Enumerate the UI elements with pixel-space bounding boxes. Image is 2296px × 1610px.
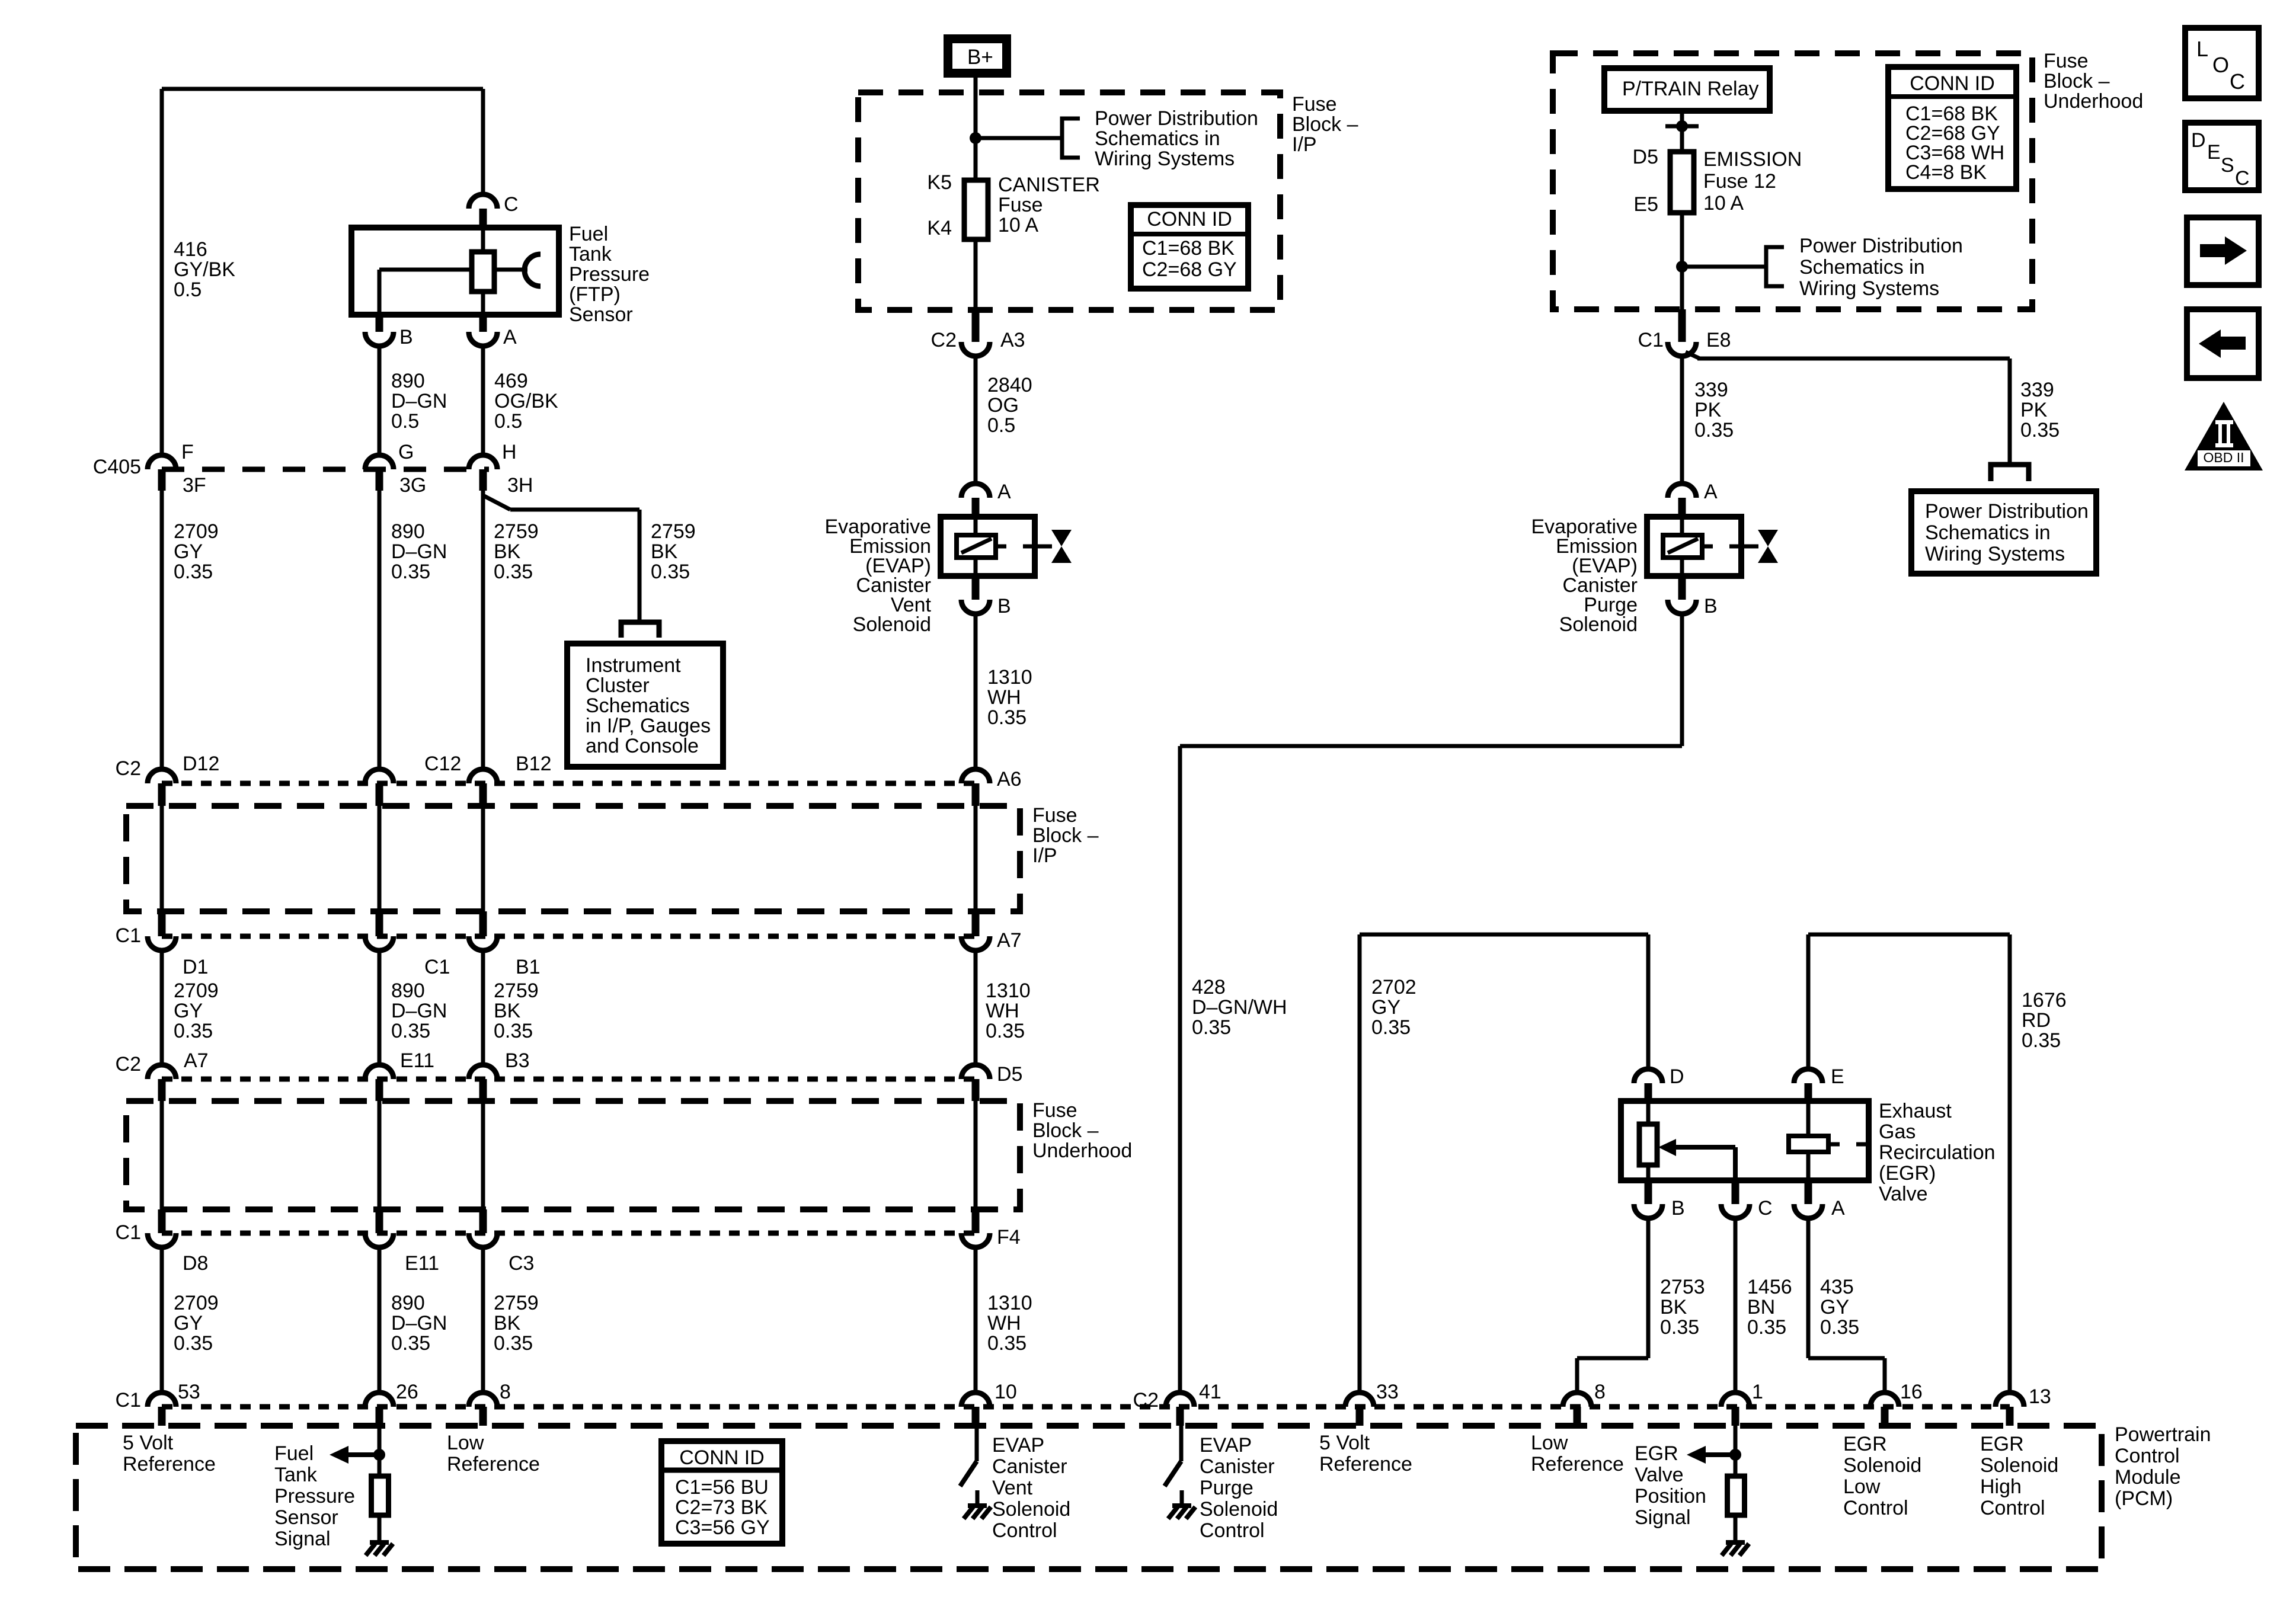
junction node <box>1676 261 1688 273</box>
svg-text:Low: Low <box>447 1432 484 1454</box>
ground (EGR position) <box>1726 1540 1745 1545</box>
wire 2753 BK 0.35 (EGR B to pin 8) <box>1646 1218 1651 1358</box>
connector D1 <box>158 911 166 936</box>
P/TRAIN relay box <box>1604 68 1770 111</box>
svg-text:0.35: 0.35 <box>391 1020 430 1042</box>
svg-text:CONN ID: CONN ID <box>1910 72 1995 95</box>
svg-text:16: 16 <box>1900 1381 1923 1403</box>
bus staple to instrument cluster <box>621 622 659 638</box>
svg-text:A7: A7 <box>997 929 1022 952</box>
svg-text:Reference: Reference <box>447 1453 540 1475</box>
svg-text:Power Distribution: Power Distribution <box>1095 107 1258 130</box>
svg-text:Module: Module <box>2115 1466 2181 1489</box>
svg-text:0.35: 0.35 <box>1660 1316 1699 1339</box>
svg-text:CONN ID: CONN ID <box>679 1446 765 1469</box>
connector D8 <box>158 1209 166 1233</box>
svg-text:0.35: 0.35 <box>174 561 213 583</box>
svg-text:0.35: 0.35 <box>494 1020 533 1042</box>
svg-text:I/P: I/P <box>1292 133 1317 156</box>
wire 890 D-GN 0.35 (G to C12) <box>378 491 382 769</box>
svg-text:Solenoid: Solenoid <box>992 1498 1070 1521</box>
svg-text:A7: A7 <box>184 1049 209 1072</box>
internal resistor <box>1728 1476 1745 1515</box>
svg-text:C1: C1 <box>116 1389 141 1411</box>
wire 1456 BN 0.35 (EGR C to pin 1) <box>1734 1218 1738 1393</box>
svg-text:41: 41 <box>1199 1381 1221 1403</box>
connector row C1 (D8 E11 C3 F4) <box>162 1231 976 1236</box>
wire 435 GY 0.35 (EGR A to pin 16) <box>1806 1218 1811 1358</box>
svg-text:D–GN/WH: D–GN/WH <box>1192 996 1287 1019</box>
svg-text:C405: C405 <box>93 456 141 478</box>
wire 2840 OG 0.5 <box>974 356 978 484</box>
svg-text:PK: PK <box>1694 399 1722 421</box>
fuse block underhood box (top) <box>1553 53 2032 309</box>
connector H <box>469 455 497 469</box>
svg-text:BK: BK <box>494 1312 521 1334</box>
connector A6 <box>961 769 990 783</box>
svg-text:GY: GY <box>174 1000 203 1022</box>
PCM connector row <box>162 1404 2010 1410</box>
wire 2709 GY 0.35 (D8 to 53) <box>160 1247 164 1393</box>
PCM pin 16 <box>1870 1393 1899 1407</box>
svg-text:0.35: 0.35 <box>986 1020 1025 1042</box>
svg-text:Block –: Block – <box>2044 70 2110 92</box>
svg-text:Sensor: Sensor <box>569 303 633 326</box>
relay output junction <box>1680 111 1684 152</box>
svg-text:EVAP: EVAP <box>1200 1434 1252 1457</box>
junction node <box>970 132 981 144</box>
svg-text:2709: 2709 <box>174 1292 219 1314</box>
svg-text:S: S <box>2221 154 2234 177</box>
svg-text:Wiring Systems: Wiring Systems <box>1925 543 2065 565</box>
svg-text:0.35: 0.35 <box>391 561 430 583</box>
svg-text:E11: E11 <box>405 1252 439 1275</box>
svg-text:Underhood: Underhood <box>1032 1140 1132 1162</box>
svg-text:O: O <box>2212 53 2229 77</box>
svg-text:C12: C12 <box>424 753 461 775</box>
svg-text:EGR: EGR <box>1635 1442 1678 1465</box>
svg-text:Power Distribution: Power Distribution <box>1799 235 1963 257</box>
exhaust gas recirculation EGR valve box <box>1621 1101 1869 1180</box>
wire fuse to connector A3 <box>974 239 978 310</box>
fuel tank pressure sensor box <box>351 228 559 315</box>
connector A7 (vent wire) <box>972 911 980 936</box>
svg-text:I/P: I/P <box>1032 844 1057 867</box>
connector E11 (lower) <box>376 1209 383 1233</box>
wire 1310 WH 0.35 (A7 to D5) <box>974 950 978 1065</box>
svg-text:in I/P, Gauges: in I/P, Gauges <box>586 715 711 737</box>
svg-text:G: G <box>398 441 414 463</box>
svg-text:C1: C1 <box>424 956 450 978</box>
svg-text:416: 416 <box>174 238 207 261</box>
svg-text:C: C <box>2235 167 2250 190</box>
svg-text:(FTP): (FTP) <box>569 283 621 306</box>
svg-text:Exhaust: Exhaust <box>1879 1100 1952 1122</box>
svg-text:10: 10 <box>994 1381 1017 1403</box>
svg-text:Fuse: Fuse <box>1292 93 1337 116</box>
svg-text:5 Volt: 5 Volt <box>1319 1432 1370 1454</box>
svg-text:0.35: 0.35 <box>391 1332 430 1355</box>
svg-text:B: B <box>399 326 413 348</box>
svg-text:Reference: Reference <box>1319 1453 1412 1475</box>
svg-text:3F: 3F <box>183 474 206 497</box>
svg-text:D–GN: D–GN <box>391 390 447 412</box>
connector F <box>148 455 176 469</box>
svg-text:339: 339 <box>1694 379 1728 401</box>
svg-text:2759: 2759 <box>494 1292 539 1314</box>
svg-text:Sensor: Sensor <box>274 1506 338 1529</box>
svg-text:D5: D5 <box>1633 146 1658 168</box>
back arrow icon <box>2187 309 2259 378</box>
svg-text:A: A <box>503 326 517 348</box>
svg-text:Control: Control <box>992 1519 1057 1542</box>
connector C1 <box>376 911 383 936</box>
svg-text:Fuel: Fuel <box>569 223 608 245</box>
connector B (vent solenoid) <box>972 576 980 600</box>
wire 2759 BK 0.35 (B1 to B3) <box>481 950 485 1065</box>
connector A (purge solenoid) <box>1668 484 1696 498</box>
svg-text:D: D <box>2191 129 2206 152</box>
svg-text:8: 8 <box>1594 1381 1606 1403</box>
svg-text:1: 1 <box>1752 1381 1763 1403</box>
svg-text:B1: B1 <box>516 956 541 978</box>
svg-text:0.35: 0.35 <box>1820 1316 1859 1339</box>
svg-text:C4=8 BK: C4=8 BK <box>1905 161 1987 184</box>
svg-text:2709: 2709 <box>174 980 219 1002</box>
svg-text:C1=68 BK: C1=68 BK <box>1142 237 1235 260</box>
EGR potentiometer <box>1646 1101 1651 1124</box>
svg-text:GY: GY <box>174 1312 203 1334</box>
connector D5 (vent wire) <box>961 1065 990 1079</box>
wire 339 PK 0.35 (E8 branch right) <box>1686 352 1700 359</box>
svg-text:P/TRAIN Relay: P/TRAIN Relay <box>1622 78 1759 100</box>
svg-text:WH: WH <box>987 1312 1021 1334</box>
connector row C2 (A7 E11 B3 D5) <box>162 1077 976 1082</box>
svg-text:D–GN: D–GN <box>391 1312 447 1334</box>
svg-text:Reference: Reference <box>123 1453 216 1475</box>
connector C (FTP sensor) <box>469 194 497 209</box>
svg-text:BK: BK <box>651 540 678 563</box>
svg-text:D–GN: D–GN <box>391 540 447 563</box>
svg-text:EGR: EGR <box>1843 1433 1887 1455</box>
off-page bracket to power distribution <box>1062 119 1080 158</box>
svg-text:Pressure: Pressure <box>569 263 650 286</box>
svg-text:Control: Control <box>2115 1445 2180 1467</box>
B+ battery feed symbol <box>948 39 1007 73</box>
svg-text:0.35: 0.35 <box>174 1332 213 1355</box>
PCM pin 1 <box>1721 1393 1750 1407</box>
connector D12 <box>148 769 176 783</box>
svg-text:H: H <box>502 441 517 463</box>
PCM pin 8 <box>469 1393 497 1407</box>
svg-text:Schematics in: Schematics in <box>1095 127 1220 150</box>
svg-text:0.35: 0.35 <box>174 1020 213 1042</box>
svg-text:E8: E8 <box>1706 329 1731 351</box>
fuse block I/P box (lower) <box>126 806 1020 911</box>
wire 2759 BK 0.35 (H to B12) <box>481 491 485 769</box>
connector A7 <box>148 1065 176 1079</box>
svg-text:2759: 2759 <box>494 520 539 543</box>
vent solenoid valve symbol <box>1051 530 1072 546</box>
svg-text:F4: F4 <box>997 1226 1021 1249</box>
connector B1 <box>479 911 487 936</box>
connector C3 <box>479 1209 487 1233</box>
svg-text:Control: Control <box>1200 1519 1265 1542</box>
svg-text:D12: D12 <box>183 753 219 775</box>
DESC icon <box>2185 123 2259 190</box>
svg-text:BK: BK <box>494 540 521 563</box>
svg-text:Valve: Valve <box>1879 1183 1928 1205</box>
svg-text:D–GN: D–GN <box>391 1000 447 1022</box>
svg-text:B: B <box>1704 595 1718 617</box>
svg-text:C1: C1 <box>1638 329 1664 351</box>
purge solenoid valve symbol <box>1758 530 1778 546</box>
svg-text:OG/BK: OG/BK <box>494 390 558 412</box>
wire 2759 BK 0.35 (C3 to 8) <box>481 1247 485 1393</box>
svg-text:High: High <box>1980 1475 2022 1498</box>
svg-text:C3: C3 <box>509 1252 534 1275</box>
svg-text:5 Volt: 5 Volt <box>123 1432 174 1454</box>
svg-text:33: 33 <box>1376 1381 1399 1403</box>
svg-text:Block –: Block – <box>1032 824 1099 847</box>
svg-text:Vent: Vent <box>992 1477 1033 1499</box>
wires inside fuse block I/P <box>160 806 164 911</box>
bus staple to power distribution box <box>1991 465 2029 481</box>
fuse block I/P box (top) <box>858 92 1280 310</box>
wire 428 D-GN/WH 0.35 <box>1680 614 1684 746</box>
svg-text:C2: C2 <box>116 1053 141 1076</box>
svg-text:1310: 1310 <box>987 1292 1032 1314</box>
svg-text:E: E <box>1831 1065 1844 1088</box>
svg-text:B: B <box>1671 1197 1685 1219</box>
FTP potentiometer <box>481 228 485 252</box>
connector E11 <box>365 1065 394 1079</box>
connector A (vent solenoid) <box>961 484 990 498</box>
svg-text:Power Distribution: Power Distribution <box>1925 500 2089 523</box>
EVAP canister purge solenoid <box>1647 517 1741 576</box>
svg-text:Solenoid: Solenoid <box>1843 1454 1921 1477</box>
svg-text:OG: OG <box>987 394 1019 417</box>
svg-text:Low: Low <box>1531 1432 1568 1454</box>
fuel tank pressure sensor signal (pin 26) <box>378 1426 382 1476</box>
svg-text:Fuse 12: Fuse 12 <box>1703 170 1776 193</box>
svg-text:Gas: Gas <box>1879 1121 1916 1143</box>
svg-text:0.35: 0.35 <box>1747 1316 1786 1339</box>
svg-text:B12: B12 <box>516 753 552 775</box>
connector B (EGR) <box>1645 1180 1652 1204</box>
power distribution schematics box <box>1911 491 2096 574</box>
svg-text:0.5: 0.5 <box>174 279 202 301</box>
svg-text:GY: GY <box>174 540 203 563</box>
svg-text:Valve: Valve <box>1635 1464 1684 1486</box>
svg-text:0.35: 0.35 <box>1694 419 1734 441</box>
svg-text:1310: 1310 <box>986 980 1031 1002</box>
PCM pin 26 <box>365 1393 394 1407</box>
EVAP canister vent solenoid <box>941 517 1035 576</box>
svg-text:BN: BN <box>1747 1296 1775 1318</box>
svg-text:0.35: 0.35 <box>987 706 1027 729</box>
connector C405 row <box>162 467 489 472</box>
svg-text:890: 890 <box>391 980 425 1002</box>
svg-text:Schematics in: Schematics in <box>1925 521 2051 544</box>
svg-text:0.35: 0.35 <box>1371 1016 1411 1039</box>
svg-text:Solenoid: Solenoid <box>1200 1498 1278 1521</box>
svg-text:CANISTER: CANISTER <box>998 174 1100 196</box>
svg-text:10 A: 10 A <box>998 214 1038 236</box>
connector B (FTP) <box>376 315 383 332</box>
internal resistor <box>372 1476 389 1515</box>
connector C (EGR) <box>1732 1180 1739 1204</box>
svg-text:EGR: EGR <box>1980 1433 2024 1455</box>
svg-text:C: C <box>504 193 519 216</box>
svg-text:469: 469 <box>494 370 528 392</box>
svg-text:Canister: Canister <box>1200 1455 1275 1478</box>
wire 2709 GY 0.35 (F to D12) <box>160 491 164 769</box>
svg-text:Solenoid: Solenoid <box>1980 1454 2058 1477</box>
svg-text:B3: B3 <box>505 1049 530 1072</box>
svg-text:13: 13 <box>2029 1385 2051 1408</box>
fuse block underhood box (lower) <box>126 1101 1020 1209</box>
EMISSION fuse D5/E5 <box>1670 152 1694 213</box>
svg-text:GY: GY <box>1820 1296 1849 1318</box>
connector A (EGR) <box>1805 1180 1812 1204</box>
svg-text:A3: A3 <box>1000 329 1025 351</box>
svg-text:2709: 2709 <box>174 520 219 543</box>
svg-text:(PCM): (PCM) <box>2115 1487 2173 1510</box>
FTP wiper wire <box>379 268 472 272</box>
svg-text:2840: 2840 <box>987 374 1032 396</box>
PCM pin 10 <box>961 1393 990 1407</box>
svg-text:Solenoid: Solenoid <box>1559 613 1638 636</box>
PCM pin 33 <box>1345 1393 1374 1407</box>
svg-text:10 A: 10 A <box>1703 192 1744 215</box>
svg-text:and Console: and Console <box>586 735 699 757</box>
svg-text:C2=68 GY: C2=68 GY <box>1142 258 1237 281</box>
svg-text:Fuse: Fuse <box>1032 804 1077 827</box>
svg-text:C: C <box>1758 1197 1773 1219</box>
svg-text:Cluster: Cluster <box>586 674 650 697</box>
svg-text:Tank: Tank <box>274 1464 318 1486</box>
svg-text:EVAP: EVAP <box>992 1434 1044 1457</box>
svg-text:A: A <box>1831 1197 1845 1219</box>
wire 890 D-GN 0.35 (E11 to 26) <box>378 1247 382 1393</box>
svg-text:Underhood: Underhood <box>2044 90 2143 113</box>
svg-text:2759: 2759 <box>651 520 696 543</box>
svg-text:Schematics: Schematics <box>586 694 690 717</box>
svg-text:OBD II: OBD II <box>2203 450 2244 465</box>
svg-text:Signal: Signal <box>274 1528 331 1550</box>
svg-text:2753: 2753 <box>1660 1276 1705 1298</box>
FTP pressure port arc <box>494 268 527 272</box>
svg-text:D1: D1 <box>183 956 208 978</box>
svg-text:K4: K4 <box>927 217 952 239</box>
svg-text:B+: B+ <box>967 46 993 69</box>
connector B (purge solenoid) <box>1678 576 1686 600</box>
svg-text:Block –: Block – <box>1292 113 1358 136</box>
connector G <box>365 455 394 469</box>
svg-text:C2: C2 <box>116 757 141 780</box>
powertrain control module PCM box <box>76 1426 2102 1569</box>
svg-text:0.5: 0.5 <box>494 410 522 433</box>
svg-text:C1=56 BU: C1=56 BU <box>675 1476 769 1499</box>
PCM pin 13 <box>1996 1393 2024 1407</box>
svg-text:Solenoid: Solenoid <box>853 613 931 636</box>
EGR valve position signal (pin 1) <box>1734 1426 1738 1476</box>
svg-text:26: 26 <box>396 1381 418 1403</box>
LOC icon <box>2185 28 2259 98</box>
wire B+ into fuse block <box>974 76 978 180</box>
wire 469 OG/BK 0.5 <box>481 346 485 455</box>
wire 2709 GY 0.35 (D1 to A7) <box>160 950 164 1065</box>
connector B12 <box>469 769 497 783</box>
svg-text:435: 435 <box>1820 1276 1854 1298</box>
ground (FTP signal) <box>370 1540 389 1545</box>
svg-text:0.35: 0.35 <box>494 1332 533 1355</box>
svg-text:GY: GY <box>1371 996 1400 1019</box>
wire 890 D-GN 0.5 <box>378 346 382 455</box>
CANISTER fuse K5/K4 <box>964 180 988 239</box>
wire 1676 RD 0.35 (EGR E to 13) <box>1806 934 1811 1069</box>
svg-text:Tank: Tank <box>569 243 612 265</box>
svg-text:B: B <box>997 595 1011 617</box>
wire 2702 GY 0.35 (33 to EGR D) <box>1358 934 1362 1393</box>
svg-text:D: D <box>1670 1065 1684 1088</box>
svg-text:Powertrain: Powertrain <box>2115 1423 2211 1446</box>
off-page bracket to power distribution <box>1766 247 1784 286</box>
svg-text:A: A <box>997 481 1011 503</box>
svg-text:A6: A6 <box>997 768 1022 790</box>
svg-text:Fuel: Fuel <box>274 1442 314 1465</box>
svg-text:K5: K5 <box>927 171 952 194</box>
svg-text:0.35: 0.35 <box>2020 419 2060 441</box>
EGR solenoid coil <box>1806 1101 1811 1136</box>
svg-text:Reference: Reference <box>1531 1453 1624 1475</box>
OBD II icon <box>2185 402 2263 470</box>
svg-text:Pressure: Pressure <box>274 1485 355 1507</box>
connector F4 <box>972 1209 980 1233</box>
svg-text:2702: 2702 <box>1371 976 1416 998</box>
svg-text:Control: Control <box>1980 1497 2045 1519</box>
connector C2/A3 <box>972 310 980 342</box>
svg-text:0.35: 0.35 <box>2022 1029 2061 1052</box>
svg-text:Schematics in: Schematics in <box>1799 256 1925 279</box>
wire branch 2759 BK to instrument cluster <box>483 495 510 510</box>
svg-text:Recirculation: Recirculation <box>1879 1141 1996 1164</box>
svg-text:3H: 3H <box>507 474 533 497</box>
svg-text:339: 339 <box>2020 379 2054 401</box>
svg-text:3G: 3G <box>399 474 426 497</box>
svg-text:428: 428 <box>1192 976 1226 998</box>
svg-text:Block –: Block – <box>1032 1119 1099 1142</box>
wire: 416 GY/BK top loop <box>162 87 483 91</box>
connector E (EGR valve) <box>1794 1069 1822 1083</box>
wire 339 PK 0.35 (E8 to purge solenoid A) <box>1680 356 1684 484</box>
svg-text:Canister: Canister <box>992 1455 1067 1478</box>
svg-text:C1: C1 <box>116 924 141 947</box>
forward arrow icon <box>2187 217 2259 285</box>
svg-text:E: E <box>2207 141 2221 164</box>
connector row C2 (D12 C12 B12 A6) <box>162 781 976 786</box>
svg-text:Fuse: Fuse <box>998 194 1043 216</box>
svg-text:Low: Low <box>1843 1475 1881 1498</box>
wires inside fuse block underhood <box>160 1101 164 1209</box>
svg-text:Position: Position <box>1635 1485 1706 1507</box>
svg-text:0.5: 0.5 <box>987 414 1015 437</box>
connector D (EGR valve) <box>1634 1069 1662 1083</box>
svg-text:CONN ID: CONN ID <box>1147 208 1232 231</box>
EVAP canister purge solenoid control driver (pin 41) <box>1179 1426 1184 1461</box>
svg-text:1310: 1310 <box>987 666 1032 689</box>
